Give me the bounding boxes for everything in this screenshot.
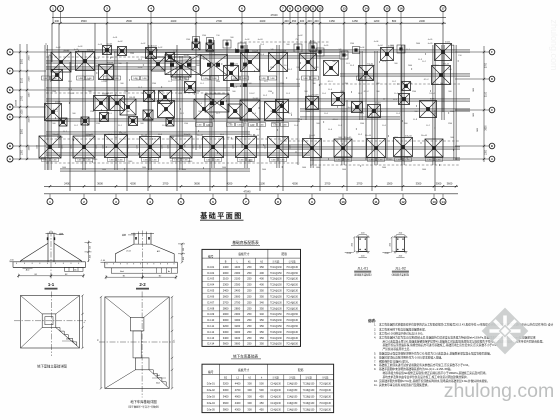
svg-text:DJ-07: DJ-07	[183, 59, 188, 61]
tick	[87, 124, 89, 126]
svg-text:1300: 1300	[22, 149, 24, 155]
svg-text:7C16@130: 7C16@130	[319, 390, 331, 392]
footing DJ-04 at axis node 2	[76, 52, 95, 71]
svg-text:1400: 1400	[109, 160, 113, 162]
footing dim texts	[42, 158, 50, 162]
svg-text:7C16@130: 7C16@130	[303, 390, 315, 392]
svg-text:zhulong.com: zhulong.com	[444, 380, 555, 402]
tick	[115, 94, 117, 96]
grid stem	[52, 12, 54, 24]
svg-text:16: 16	[399, 7, 403, 11]
dim tick	[342, 185, 344, 187]
svg-text:7C16@150: 7C16@150	[270, 296, 282, 298]
svg-text:1400: 1400	[71, 145, 73, 149]
svg-text:其他未尽事宜按有关规范执行及图集要求。: 其他未尽事宜按有关规范执行及图集要求。	[379, 383, 430, 387]
grid bubble 17	[440, 6, 446, 12]
svg-text:DJ-03: DJ-03	[207, 277, 214, 281]
svg-text:3400: 3400	[223, 336, 229, 340]
dim tick	[212, 185, 214, 187]
svg-text:7C16@150: 7C16@150	[270, 285, 282, 287]
column	[311, 45, 314, 48]
svg-text:DJ-04: DJ-04	[87, 51, 92, 53]
column	[225, 42, 228, 45]
svg-text:7C14@150: 7C14@150	[286, 296, 298, 298]
tick	[452, 149, 454, 151]
svg-text:3200: 3200	[234, 324, 240, 328]
dim tick	[115, 185, 117, 187]
svg-text:14: 14	[364, 7, 368, 11]
detail2 centerline v	[141, 292, 143, 398]
tick	[91, 161, 93, 163]
svg-text:DJa-02: DJa-02	[197, 135, 203, 137]
svg-text:7C14@150: 7C14@150	[286, 273, 298, 275]
svg-text:450: 450	[259, 395, 264, 399]
svg-text:C14@150: C14@150	[287, 397, 298, 399]
dim tick	[150, 22, 152, 24]
svg-text:7C16@130: 7C16@130	[303, 410, 315, 412]
svg-text:250: 250	[247, 294, 252, 298]
svg-text:3600: 3600	[234, 342, 240, 346]
footing DJ-09 at axis node 16	[300, 54, 317, 71]
dim tick	[26, 116, 28, 118]
svg-text:2-2: 2-2	[139, 282, 146, 287]
svg-text:900: 900	[226, 137, 229, 139]
dim tick	[305, 22, 307, 24]
svg-text:7C16@130: 7C16@130	[303, 383, 315, 385]
svg-text:1200: 1200	[90, 111, 94, 113]
footing dim texts	[270, 158, 278, 162]
pad	[353, 47, 360, 54]
svg-text:1400: 1400	[152, 160, 156, 162]
svg-text:4200: 4200	[130, 181, 136, 185]
tick	[374, 150, 376, 152]
detail2 centerline h	[99, 341, 175, 343]
grid leader	[13, 116, 46, 118]
grid stem	[375, 194, 377, 199]
svg-text:1400: 1400	[43, 160, 47, 162]
foundation beam	[200, 55, 340, 57]
foundation beam	[46, 98, 470, 100]
svg-text:2700: 2700	[325, 181, 331, 185]
tick	[82, 87, 84, 89]
svg-text:7C14@150: 7C14@150	[270, 326, 282, 328]
svg-text:450: 450	[259, 408, 264, 412]
svg-text:1400: 1400	[37, 145, 39, 149]
dim tick	[365, 22, 367, 24]
svg-text:Asd: Asd	[66, 338, 69, 341]
svg-text:900: 900	[304, 91, 307, 93]
footing DJ at axis node 46	[166, 118, 174, 126]
svg-text:DJ-07: DJ-07	[207, 300, 214, 304]
svg-text:7C16@130: 7C16@130	[286, 279, 298, 281]
grid stem	[115, 194, 117, 199]
svg-text:1400: 1400	[303, 78, 307, 80]
section 1-1 pit box	[65, 267, 84, 271]
footing DJa-04 at axis node 59	[394, 138, 413, 157]
pad	[316, 48, 324, 56]
column	[243, 83, 247, 87]
svg-text:13: 13	[432, 200, 436, 204]
column	[235, 49, 239, 53]
foundation beam vertical	[341, 51, 343, 165]
detail2 top square	[130, 317, 144, 331]
svg-text:A12: A12	[157, 250, 160, 253]
svg-text:DJ-13: DJ-13	[105, 93, 110, 95]
dim tick	[433, 185, 435, 187]
svg-text:JL-7: JL-7	[216, 113, 220, 115]
footing DJ at axis node 56	[303, 139, 322, 158]
svg-text:900: 900	[120, 83, 123, 85]
svg-text:1500: 1500	[378, 111, 382, 113]
svg-text:JL-3: JL-3	[161, 69, 165, 71]
svg-text:DJ-10: DJ-10	[375, 103, 381, 105]
svg-text:2400: 2400	[171, 19, 177, 23]
svg-text:D: D	[491, 77, 493, 81]
svg-text:1400: 1400	[118, 160, 122, 162]
footing dim texts	[108, 158, 116, 162]
tick	[198, 130, 200, 132]
svg-text:11: 11	[311, 7, 315, 11]
svg-text:4900: 4900	[235, 395, 241, 399]
svg-text:Ju-05: Ju-05	[427, 43, 433, 45]
tick	[304, 99, 306, 101]
detail2 shaft	[133, 331, 141, 358]
section 1-1 base slab	[13, 261, 86, 263]
foundation beam vertical	[211, 40, 213, 168]
footing DJ-07 at axis node 9	[171, 57, 191, 77]
detail2 diagonal	[144, 297, 169, 317]
top dimension line 2	[52, 22, 446, 24]
svg-text:900: 900	[228, 123, 231, 125]
dim tick	[483, 109, 485, 111]
dashed wall line	[310, 164, 460, 166]
svg-text:Ju-01: Ju-01	[98, 44, 103, 46]
footing dim texts	[238, 158, 246, 162]
svg-text:JL-2: JL-2	[206, 125, 210, 127]
svg-text:JL-6: JL-6	[382, 125, 386, 127]
grid stem	[241, 12, 243, 24]
svg-text:4200: 4200	[292, 181, 298, 185]
svg-text:400: 400	[260, 271, 265, 275]
svg-text:250: 250	[247, 318, 252, 322]
section 2-2 pit box	[111, 268, 177, 273]
tick	[351, 91, 353, 93]
plan title underline	[200, 219, 244, 221]
svg-text:350: 350	[260, 306, 265, 310]
tick	[202, 167, 204, 169]
svg-text:JL-1: JL-1	[118, 125, 122, 127]
table2 row line	[202, 392, 334, 394]
svg-text:3100: 3100	[486, 91, 488, 97]
grid line vertical	[126, 62, 128, 191]
svg-text:1400: 1400	[302, 167, 306, 169]
svg-text:JCL-1: JCL-1	[327, 81, 332, 83]
svg-text:7C16@150: 7C16@150	[270, 344, 282, 346]
svg-text:本工程基础形式依据勘察单位提供的岩土工程勘察报告(工程编号2: 本工程基础形式依据勘察单位提供的岩土工程勘察报告(工程编号2013.43,勘察单…	[379, 322, 554, 326]
svg-text:1400: 1400	[436, 160, 440, 162]
tick	[397, 83, 399, 85]
svg-text:900: 900	[316, 123, 319, 125]
svg-text:1250: 1250	[352, 19, 358, 23]
svg-text:DJ-12: DJ-12	[433, 65, 438, 67]
svg-text:1400: 1400	[248, 160, 252, 162]
svg-text:400: 400	[260, 283, 265, 287]
grid stem	[195, 12, 197, 24]
grid bubble 9	[295, 6, 301, 12]
svg-text:900: 900	[376, 91, 379, 93]
table1 row line	[202, 274, 301, 276]
svg-text:C14@150: C14@150	[287, 390, 298, 392]
grid stem	[312, 12, 314, 24]
grid line vertical	[346, 100, 348, 191]
grid bubble E	[7, 87, 13, 93]
svg-text:7C14@150: 7C14@150	[286, 326, 298, 328]
grid stem	[297, 12, 299, 24]
svg-text:10: 10	[304, 7, 308, 11]
table1 row line	[202, 316, 301, 318]
svg-text:900: 900	[118, 63, 121, 65]
svg-text:3200: 3200	[223, 324, 229, 328]
svg-text:300: 300	[247, 408, 252, 412]
svg-text:1400: 1400	[212, 78, 216, 80]
footing DJ-13 at axis node 25	[120, 99, 136, 115]
detail1 centerline h	[14, 320, 86, 322]
svg-text:1400: 1400	[62, 167, 66, 169]
svg-text:JL-1: JL-1	[173, 51, 177, 53]
tick	[68, 102, 70, 104]
svg-text:1400: 1400	[137, 145, 139, 149]
grid stem	[433, 194, 435, 199]
pad	[238, 43, 246, 51]
svg-text:250: 250	[247, 330, 252, 334]
section 1-1 right dim	[88, 241, 90, 263]
tick	[184, 145, 186, 147]
grid leader	[13, 106, 46, 108]
tick	[281, 166, 283, 168]
svg-text:1400: 1400	[345, 160, 349, 162]
bottom grid bubble 2	[81, 199, 87, 205]
tick	[147, 101, 149, 103]
svg-text:900: 900	[414, 111, 417, 113]
svg-text:DJ-14: DJ-14	[429, 93, 434, 95]
svg-text:2900: 2900	[234, 312, 240, 316]
svg-text:DJ-05: DJ-05	[207, 289, 214, 293]
svg-text:DJ-14: DJ-14	[430, 99, 436, 101]
svg-text:900: 900	[448, 91, 451, 93]
svg-text:DJ-07: DJ-07	[249, 93, 254, 95]
detail2 outer rect	[105, 297, 169, 389]
table1 row line	[202, 269, 301, 271]
foundation beam	[46, 131, 250, 133]
svg-text:DJ-07: DJ-07	[253, 98, 259, 100]
svg-text:DJ-02: DJ-02	[143, 57, 148, 59]
svg-text:7C14@150: 7C14@150	[286, 344, 298, 346]
bottom grid bubble 8	[275, 199, 281, 205]
tick	[272, 92, 274, 94]
dim tick	[19, 106, 21, 108]
svg-text:1400: 1400	[234, 265, 240, 269]
svg-text:1300: 1300	[29, 145, 31, 151]
svg-text:1200: 1200	[94, 65, 98, 67]
dim tick	[26, 145, 28, 147]
svg-text:900: 900	[256, 69, 259, 71]
foundation beam	[95, 49, 470, 51]
tick	[429, 90, 431, 92]
svg-text:7C14@130: 7C14@130	[286, 302, 298, 304]
svg-text:1400: 1400	[52, 160, 56, 162]
foundation beam vertical	[114, 51, 116, 170]
foundation beam vertical	[179, 56, 181, 170]
svg-text:DJa-04: DJa-04	[365, 135, 371, 137]
svg-text:地下车库基础详图: 地下车库基础详图	[130, 399, 157, 404]
svg-text:7C16@130: 7C16@130	[286, 308, 298, 310]
dim tick	[19, 89, 21, 91]
svg-text:7C16@130: 7C16@130	[319, 383, 331, 385]
grid stem	[49, 194, 51, 199]
svg-text:3400: 3400	[234, 336, 240, 340]
svg-text:基础平面图中未注明的基础联系梁均为JLL(1)①~③x58~: 基础平面图中未注明的基础联系梁均为JLL(1)①~③x58~58轴。	[379, 367, 453, 371]
footing DJ at axis node 12	[206, 43, 214, 51]
svg-text:DJ-05: DJ-05	[231, 79, 236, 81]
svg-text:DJ-06: DJ-06	[101, 81, 106, 83]
table1 row line	[202, 298, 301, 300]
svg-text:JCL-1: JCL-1	[332, 119, 338, 121]
tick	[309, 136, 311, 138]
footing DJ-06 at axis node 8	[99, 65, 114, 80]
grid leader	[455, 158, 489, 160]
tick	[152, 138, 154, 140]
svg-text:DJa-01: DJa-01	[207, 382, 216, 385]
svg-text:3600: 3600	[486, 125, 488, 131]
svg-text:1400: 1400	[259, 125, 263, 127]
pad	[207, 38, 214, 45]
svg-text:1200: 1200	[124, 91, 128, 93]
tick	[402, 120, 404, 122]
svg-text:1200: 1200	[202, 35, 206, 37]
svg-text:C14@130: C14@130	[270, 397, 281, 399]
svg-text:250: 250	[247, 312, 252, 316]
svg-text:1200: 1200	[86, 79, 90, 81]
svg-text:1400: 1400	[261, 78, 265, 80]
svg-text:3300: 3300	[416, 181, 422, 185]
svg-text:基础混凝土强度等级除注明外均为C30,垫层为C10素混凝土,: 基础混凝土强度等级除注明外均为C30,垫层为C10素混凝土,基础联系梁混凝土强度…	[379, 352, 492, 356]
tick	[240, 85, 242, 87]
grid line vertical	[434, 110, 436, 191]
svg-text:3300: 3300	[223, 388, 229, 392]
svg-text:基础施工前须先进行试夯试验确定有关参数后方可施工,压实系数不: 基础施工前须先进行试夯试验确定有关参数后方可施工,压实系数不小于0.94。	[379, 363, 471, 367]
svg-text:DJ-13: DJ-13	[130, 97, 136, 99]
dim tick	[483, 158, 485, 160]
svg-text:F: F	[491, 50, 493, 54]
tick	[406, 157, 408, 159]
svg-text:4700: 4700	[235, 388, 241, 392]
footing DJ-08 at axis node 15	[269, 53, 288, 72]
svg-text:2600: 2600	[223, 294, 229, 298]
svg-text:1400: 1400	[162, 145, 164, 149]
svg-text:1700: 1700	[22, 95, 24, 101]
section 1-1 column	[47, 233, 49, 262]
svg-text:2400: 2400	[262, 169, 266, 171]
svg-text:As: As	[74, 269, 76, 272]
footing dim texts	[173, 158, 181, 162]
grid bubble D	[7, 104, 13, 110]
dim tick	[442, 22, 444, 24]
footing DJ at axis node 36	[332, 93, 345, 106]
grid stem	[245, 194, 247, 199]
svg-text:900: 900	[248, 83, 251, 85]
svg-text:2900: 2900	[22, 128, 24, 134]
combined footing DJb-02	[201, 55, 228, 76]
svg-text:1400: 1400	[223, 265, 229, 269]
footing DJ-10 at axis node 18	[359, 66, 374, 81]
footing DJ at axis node 31	[265, 102, 284, 121]
foundation beam vertical	[148, 45, 150, 170]
column	[194, 38, 197, 41]
grid line vertical	[195, 23, 197, 150]
grid line vertical	[365, 23, 367, 160]
svg-text:900: 900	[50, 79, 53, 81]
footing DJ-12 at axis node 21	[432, 66, 451, 85]
foundation beam	[60, 168, 250, 170]
footing DJ-03 at axis node 1	[51, 52, 71, 72]
tick	[411, 68, 413, 70]
svg-text:DJ-03: DJ-03	[63, 51, 68, 53]
svg-text:Ju-04: Ju-04	[377, 45, 383, 47]
footing DJ at axis node 37	[352, 102, 363, 113]
svg-text:1-1: 1-1	[48, 282, 55, 287]
svg-text:Ju-02: Ju-02	[310, 41, 315, 43]
svg-text:350: 350	[260, 330, 265, 334]
svg-text:DJa-02: DJa-02	[85, 135, 91, 137]
svg-text:15: 15	[385, 7, 389, 11]
tick	[443, 75, 445, 77]
footing dim texts	[142, 158, 150, 162]
svg-text:DJa-02: DJa-02	[207, 389, 216, 392]
tick	[253, 70, 255, 72]
svg-text:1500: 1500	[130, 53, 134, 55]
svg-text:DJ-01: DJ-01	[107, 44, 113, 46]
tick	[286, 77, 288, 79]
grid stem	[305, 12, 307, 24]
dim tick	[483, 78, 485, 80]
svg-text:JL-2: JL-2	[284, 65, 288, 67]
grid leader	[13, 145, 46, 147]
dim tick	[343, 22, 345, 24]
grid stem	[365, 12, 367, 24]
svg-text:900: 900	[338, 137, 341, 139]
svg-text:14: 14	[441, 200, 445, 204]
svg-text:150: 150	[216, 35, 219, 37]
svg-text:2700: 2700	[234, 300, 240, 304]
tick	[434, 127, 436, 129]
svg-text:5.: 5.	[374, 352, 376, 356]
grid stem	[83, 194, 85, 199]
svg-text:500: 500	[259, 388, 264, 392]
svg-text:7C16@130: 7C16@130	[303, 403, 315, 405]
dim tick	[19, 158, 21, 160]
svg-text:F: F	[9, 69, 11, 73]
svg-text:250: 250	[247, 277, 252, 281]
svg-text:2.: 2.	[374, 328, 376, 332]
dim tick	[483, 51, 485, 53]
svg-text:1400: 1400	[173, 78, 177, 80]
svg-text:地下车库基础表: 地下车库基础表	[233, 353, 259, 358]
pad	[294, 44, 302, 52]
foundation beam vertical	[401, 45, 403, 165]
svg-text:DJ-12: DJ-12	[207, 330, 214, 334]
svg-text:C: C	[491, 108, 493, 112]
svg-text:350: 350	[260, 294, 265, 298]
